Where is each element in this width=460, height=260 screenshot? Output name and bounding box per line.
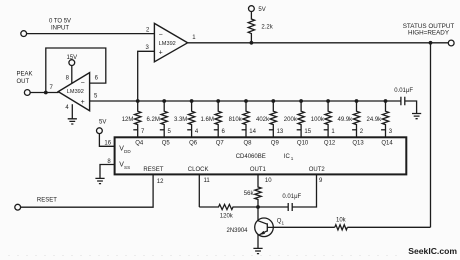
- svg-text:1: 1: [291, 156, 294, 161]
- pin tick: [187, 129, 191, 131]
- svg-text:DD: DD: [124, 149, 131, 154]
- svg-text:Q14: Q14: [381, 141, 393, 147]
- pin tick: [297, 129, 301, 131]
- svg-text:15: 15: [304, 129, 311, 135]
- pin tick: [324, 129, 328, 131]
- wire 5V to IC1 pin16: [99, 134, 114, 147]
- wire transistor emitter to ground: [257, 234, 259, 248]
- resistor 49.9k: [353, 101, 359, 137]
- svg-text:49.9k: 49.9k: [338, 117, 354, 123]
- ground U1 pin4: [68, 119, 77, 124]
- resistor 402k: [270, 101, 276, 137]
- svg-text:200k: 200k: [284, 117, 298, 123]
- wire op-amp U2 pin3 to summing bus: [138, 51, 155, 101]
- svg-text:−: −: [81, 80, 85, 87]
- svg-text:Q8: Q8: [243, 141, 252, 147]
- faint artifact row: [8, 255, 400, 257]
- svg-text:1: 1: [282, 220, 285, 225]
- terminal peak out: [24, 90, 30, 96]
- svg-text:IC: IC: [284, 154, 291, 160]
- wire right vertical feedback to 10k: [430, 43, 432, 228]
- svg-text:14: 14: [249, 129, 256, 135]
- svg-text:RESET: RESET: [37, 198, 57, 204]
- svg-text:12: 12: [157, 179, 164, 185]
- resistor 200k: [298, 101, 304, 137]
- svg-text:+: +: [81, 99, 85, 106]
- node summing bus junction at 12M: [136, 99, 140, 103]
- wire cap C1 leads: [386, 101, 417, 113]
- wire 10k to right vertical: [347, 226, 430, 228]
- resistor 2.2k pull-up: [248, 11, 254, 42]
- pin tick: [214, 129, 218, 131]
- capacitor C1 0.01uF plates: [401, 97, 405, 106]
- svg-text:5V: 5V: [258, 7, 265, 13]
- node status line / 10k branch node: [429, 41, 433, 45]
- svg-text:Q5: Q5: [162, 141, 171, 147]
- resistor 100k: [325, 101, 331, 137]
- wire node B junction to transistor: [257, 207, 259, 221]
- resistor 12M: [135, 101, 141, 137]
- svg-text:INPUT: INPUT: [51, 25, 69, 31]
- svg-text:Q6: Q6: [189, 141, 198, 147]
- svg-text:LM392: LM392: [67, 89, 84, 95]
- svg-text:RESET: RESET: [143, 167, 163, 173]
- svg-text:3.3M: 3.3M: [174, 117, 187, 123]
- svg-text:Q7: Q7: [216, 141, 225, 147]
- svg-text:16: 16: [104, 140, 111, 146]
- resistor 56k: [255, 186, 261, 208]
- node peak-out feedback node: [44, 91, 48, 95]
- svg-text:11: 11: [204, 178, 211, 184]
- node summing bus junction at 810k: [244, 99, 248, 103]
- wire 15V to U1 pin8: [71, 65, 73, 83]
- wire peak out to U1: [30, 92, 58, 94]
- svg-text:CLOCK: CLOCK: [188, 167, 209, 173]
- svg-text:402k: 402k: [256, 117, 270, 123]
- svg-text:SeekIC.com: SeekIC.com: [408, 246, 457, 256]
- wire transistor base line to 10k: [273, 226, 335, 228]
- svg-text:5V: 5V: [99, 119, 106, 125]
- svg-text:0 TO 5V: 0 TO 5V: [49, 18, 71, 24]
- svg-text:PEAK: PEAK: [17, 72, 33, 78]
- capacitor C2 0.01uF plates: [288, 203, 292, 211]
- svg-text:56k: 56k: [244, 191, 255, 197]
- node summing bus junction at 6.2M: [162, 99, 166, 103]
- wire status output line: [187, 42, 448, 44]
- pin tick: [160, 129, 164, 131]
- svg-text:100k: 100k: [311, 117, 325, 123]
- wire input line: [27, 33, 155, 35]
- terminal 15V: [69, 60, 75, 66]
- svg-text:OUT1: OUT1: [250, 167, 267, 173]
- svg-text:0.01μF: 0.01μF: [282, 194, 301, 200]
- terminal reset: [15, 204, 21, 210]
- op-amp U1 LM392 peak detector: [58, 73, 89, 111]
- resistor 10k: [335, 225, 348, 230]
- pin tick: [381, 129, 385, 131]
- node summing bus junction at 200k: [299, 99, 303, 103]
- ground C1: [412, 114, 421, 119]
- svg-text:15V: 15V: [66, 55, 77, 61]
- resistor 6.2M: [161, 101, 167, 137]
- node summing bus junction at 3.3M: [190, 99, 194, 103]
- node summing bus junction at 100k: [326, 99, 330, 103]
- wire cap C2 right lead to IC1 pin9: [292, 174, 316, 207]
- svg-text:Q4: Q4: [135, 141, 144, 147]
- svg-text:OUT2: OUT2: [309, 167, 326, 173]
- node summing bus junction at 24.9k: [384, 99, 388, 103]
- wire IC1 pin10 out1: [257, 174, 259, 185]
- node summing bus junction at 402k: [271, 99, 275, 103]
- svg-text:810k: 810k: [229, 117, 243, 123]
- op-amp U2 LM392 comparator: [154, 23, 187, 61]
- node status line / 2.2k node: [250, 41, 254, 45]
- resistor 120k: [199, 204, 258, 209]
- wire U1 feedback loop: [46, 48, 106, 93]
- svg-text:1.6M: 1.6M: [201, 117, 214, 123]
- svg-text:Q9: Q9: [271, 141, 280, 147]
- ground Q1 emitter: [253, 248, 262, 253]
- resistor 810k: [243, 101, 249, 137]
- terminal status output: [448, 40, 454, 46]
- svg-text:Q12: Q12: [324, 141, 336, 147]
- svg-text:OUT: OUT: [17, 79, 30, 85]
- node summing bus junction at 49.9k: [355, 99, 359, 103]
- pin tick: [269, 129, 273, 131]
- svg-text:CD4060BE: CD4060BE: [236, 154, 266, 160]
- resistor 3.3M: [188, 101, 194, 137]
- IC U3 CD4060BE box: [115, 137, 407, 174]
- pin tick: [242, 129, 246, 131]
- wire IC1 pin8 VSS to ground: [100, 165, 115, 179]
- svg-text:LM392: LM392: [159, 41, 176, 47]
- svg-text:HIGH=READY: HIGH=READY: [408, 30, 450, 37]
- terminal input: [21, 31, 27, 37]
- svg-text:−: −: [159, 31, 163, 38]
- wire cap C2 left lead: [258, 206, 288, 208]
- svg-text:24.9k: 24.9k: [367, 117, 383, 123]
- resistor 1.6M: [215, 101, 221, 137]
- wire U1 pin4 to ground: [71, 104, 73, 118]
- svg-text:2.2k: 2.2k: [261, 25, 273, 31]
- wire IC1 pin11 clock: [198, 174, 200, 207]
- svg-text:10k: 10k: [336, 217, 347, 223]
- svg-text:0.01μF: 0.01μF: [394, 88, 413, 94]
- node node B oscillator junction: [256, 205, 260, 209]
- svg-text:Q13: Q13: [352, 141, 364, 147]
- svg-text:12M: 12M: [122, 117, 134, 123]
- svg-text:+: +: [159, 50, 163, 57]
- terminal 5V left: [97, 128, 103, 134]
- wire summing bus node A: [90, 100, 386, 102]
- terminal 5V top: [249, 6, 255, 12]
- ground VSS: [95, 178, 104, 183]
- wire reset line to IC1 pin12: [21, 174, 154, 207]
- svg-text:2N3904: 2N3904: [227, 228, 249, 234]
- pin tick: [133, 129, 137, 131]
- transistor Q1 2N3904: [255, 218, 274, 237]
- svg-text:13: 13: [277, 129, 284, 135]
- svg-text:10: 10: [265, 178, 272, 184]
- svg-text:6.2M: 6.2M: [147, 117, 160, 123]
- pin tick: [352, 129, 356, 131]
- svg-text:Q10: Q10: [297, 141, 309, 147]
- resistor 24.9k: [382, 101, 388, 137]
- node summing bus junction at 1.6M: [216, 99, 220, 103]
- svg-text:SS: SS: [124, 165, 130, 170]
- svg-text:120k: 120k: [220, 213, 234, 219]
